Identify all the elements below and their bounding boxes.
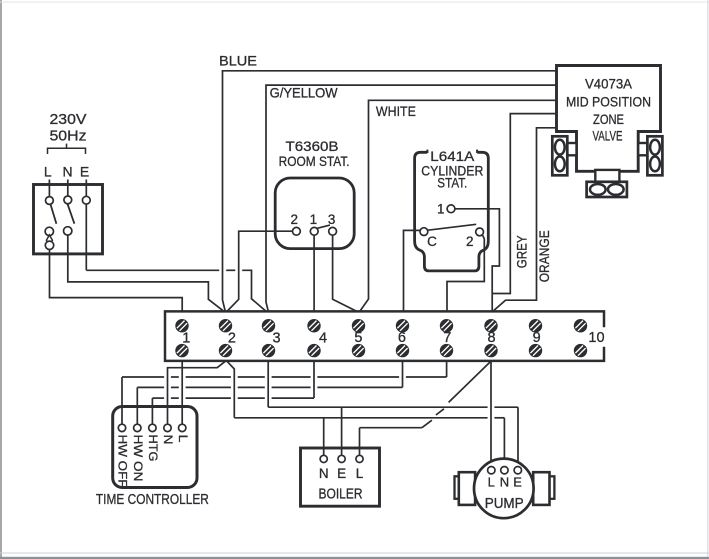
wire room stat 3 to terminal 5 [333, 235, 357, 311]
wire terminal 4 to time controller HTG [152, 361, 314, 424]
svg-text:HTG: HTG [146, 435, 160, 462]
wire room stat 1 to terminal 4 [313, 235, 315, 311]
time controller terminal N [164, 424, 171, 431]
svg-text:9: 9 [533, 330, 541, 346]
time controller label HTG [146, 435, 160, 462]
time controller label L [176, 435, 190, 443]
svg-text:6: 6 [398, 330, 406, 346]
svg-text:10: 10 [588, 330, 604, 346]
svg-text:50Hz: 50Hz [50, 129, 87, 145]
wire ORANGE valve to terminal 8 [493, 128, 557, 312]
svg-text:2: 2 [228, 331, 236, 347]
boiler terminal N [320, 455, 327, 462]
wire BLUE label [219, 53, 257, 69]
wire N label to N contact [67, 180, 69, 196]
svg-text:L: L [44, 163, 52, 179]
wire room stat 2 to terminal 2 [227, 231, 293, 311]
pump terminal E [514, 467, 521, 474]
pump terminal L [488, 467, 495, 474]
terminal 9 label [533, 330, 541, 346]
zone valve labels V4073A MID POSITION ZONE VALVE [566, 77, 651, 144]
time controller label N [161, 435, 175, 445]
cylinder stat terminal 1 [447, 205, 455, 213]
svg-text:2: 2 [291, 212, 299, 227]
wire WHITE label [376, 103, 416, 119]
svg-text:GREY: GREY [514, 235, 530, 269]
boiler caption [319, 487, 363, 503]
wire terminal 6 to time controller HW ON [137, 361, 402, 424]
wire terminal 7 to time controller HW OFF [122, 361, 447, 424]
terminal 8 screws [485, 320, 497, 357]
terminal 5 screws [353, 320, 365, 357]
svg-text:3: 3 [272, 331, 280, 347]
svg-text:1: 1 [310, 212, 318, 227]
cylinder stat L641A body [415, 150, 489, 271]
svg-text:L: L [176, 435, 190, 443]
wire E label to E contact [85, 180, 87, 197]
wire mains E to terminal 3 (with crossover breaks) [86, 204, 266, 311]
svg-text:4: 4 [319, 331, 327, 347]
wire cylinder stat 2 to terminal 7 [447, 235, 484, 311]
svg-text:L: L [356, 466, 364, 481]
terminal 6 label [398, 330, 406, 346]
switch pole N: contacts and open blade [63, 196, 74, 235]
room stat labels T6360B ROOM STAT. [279, 138, 350, 169]
wire L label to L contact [48, 180, 50, 197]
earth bus terminal 3 to boiler E and pump E [268, 361, 518, 466]
svg-text:ORANGE: ORANGE [536, 230, 552, 282]
svg-text:N: N [319, 466, 329, 481]
room stat terminal 1 [310, 227, 318, 235]
terminal strip box [165, 311, 604, 361]
svg-text:E: E [513, 475, 522, 490]
time controller terminal HW OFF [118, 424, 125, 431]
svg-text:N: N [500, 475, 509, 490]
svg-text:VALVE: VALVE [593, 129, 623, 144]
svg-text:HW OFF: HW OFF [116, 435, 130, 488]
wire cylinder stat C to terminal 6 [404, 230, 421, 311]
terminal 3 label [272, 331, 280, 347]
svg-text:BLUE: BLUE [219, 53, 257, 69]
wire GREY valve to terminal 8 [493, 114, 557, 294]
terminal 6 screws [397, 320, 409, 357]
cylinder stat terminal 2 label [466, 234, 474, 249]
pump left pipe flange [455, 472, 476, 505]
wire ORANGE label [536, 230, 552, 282]
svg-text:8: 8 [487, 330, 495, 346]
svg-text:5: 5 [354, 330, 362, 346]
cylinder stat switch blade C-2 [428, 224, 476, 230]
terminal 10 screws [575, 320, 587, 357]
E feed-through contact [82, 196, 90, 204]
cylinder stat terminal 2 [476, 228, 484, 236]
wire terminal 8 to pump L [490, 361, 492, 466]
terminal 10 label [588, 330, 604, 346]
wire mains L to terminal 1 [50, 250, 183, 312]
svg-text:230V: 230V [50, 112, 87, 128]
room stat terminal 2 [293, 227, 301, 235]
boiler box [301, 448, 380, 506]
svg-text:G/YELLOW: G/YELLOW [270, 85, 339, 101]
wire WHITE valve to terminal 5 [360, 100, 557, 311]
svg-text:E: E [80, 163, 89, 179]
terminal 3 screws [263, 320, 275, 357]
room stat switch blade 1-3 [317, 225, 330, 228]
wire terminal 2 to time controller N [168, 361, 226, 424]
neutral bus terminal 2 to boiler N and pump N [227, 361, 505, 466]
zone valve bottom pipe flange with bolts [587, 170, 627, 197]
boiler terminal labels N E L [319, 466, 364, 481]
svg-text:2: 2 [466, 234, 474, 249]
time controller box [113, 407, 197, 488]
svg-text:WHITE: WHITE [376, 103, 416, 119]
mains terminal labels L N E [44, 163, 89, 179]
cylinder stat terminal C label [427, 234, 437, 249]
terminal 1 screws [176, 320, 188, 357]
svg-text:1: 1 [182, 331, 190, 347]
wire terminal 1 to time controller L [181, 361, 183, 424]
cylinder stat terminal C [420, 228, 428, 236]
svg-text:V4073A: V4073A [585, 77, 632, 92]
svg-text:T6360B: T6360B [286, 138, 339, 154]
terminal 7 screws [441, 320, 453, 357]
pump body circle [474, 459, 534, 519]
time controller label HW OFF [116, 435, 130, 488]
svg-text:STAT.: STAT. [437, 176, 467, 191]
terminal 9 screws [530, 320, 542, 357]
terminal 4 label [319, 331, 327, 347]
mains isolator box [34, 185, 103, 254]
terminal 8 label [487, 330, 495, 346]
wire BLUE valve to terminal 2 [223, 71, 557, 312]
terminal 4 screws [308, 320, 320, 357]
svg-text:N: N [63, 163, 73, 179]
zone valve left pipe flange with bolts [552, 136, 576, 175]
svg-text:1: 1 [437, 202, 445, 217]
room stat terminal labels 2 1 3 [291, 212, 336, 227]
svg-text:L641A: L641A [430, 149, 474, 164]
room stat terminal 3 [329, 227, 337, 235]
time controller terminal HTG [149, 424, 156, 431]
pump right pipe flange [533, 472, 554, 505]
wire G/YELLOW valve to terminal 3 [266, 85, 557, 311]
svg-text:HW ON: HW ON [131, 435, 145, 482]
time controller caption [96, 492, 209, 508]
pump terminal labels L N E [488, 475, 523, 490]
pump caption [485, 496, 524, 512]
svg-text:ROOM STAT.: ROOM STAT. [279, 153, 350, 169]
terminal 7 label [443, 330, 451, 346]
terminal 2 screws [220, 320, 232, 357]
mains bracket [48, 144, 86, 154]
svg-text:L: L [488, 475, 495, 490]
svg-text:C: C [427, 234, 437, 249]
switch pole L: contacts and open blade [45, 197, 56, 250]
svg-text:7: 7 [443, 330, 451, 346]
cylinder stat terminal 1 label [437, 202, 445, 217]
zone valve right pipe flange with bolts [638, 136, 662, 175]
room stat T6360B body [275, 178, 354, 249]
time controller terminal HW ON [134, 424, 141, 431]
wire mains N to terminal 2 [68, 235, 224, 311]
zone valve V4073A box with actuator stem [557, 66, 661, 172]
terminal 2 label [228, 331, 236, 347]
wire G/YELLOW label [270, 85, 339, 101]
svg-text:PUMP: PUMP [485, 496, 524, 512]
svg-text:TIME CONTROLLER: TIME CONTROLLER [96, 492, 209, 508]
svg-text:BOILER: BOILER [319, 487, 363, 503]
wire boiler L to terminal 8 (partly dashed diagonal) [360, 361, 492, 455]
time controller terminal L [179, 424, 186, 431]
boiler terminal E [338, 455, 345, 462]
svg-text:MID POSITION: MID POSITION [566, 95, 651, 110]
svg-text:E: E [337, 466, 346, 481]
wire cylinder stat 1 to terminal 8 [455, 209, 500, 312]
pump terminal N [501, 467, 508, 474]
mains supply label 230V 50Hz [50, 112, 87, 145]
cylinder stat labels L641A CYLINDER STAT. [421, 149, 483, 191]
svg-text:ZONE: ZONE [593, 112, 624, 127]
terminal 5 label [354, 330, 362, 346]
terminal 1 label [182, 331, 190, 347]
svg-text:N: N [161, 435, 175, 445]
time controller label HW ON [131, 435, 145, 482]
boiler terminal L [356, 455, 363, 462]
wire GREY label [514, 235, 530, 269]
